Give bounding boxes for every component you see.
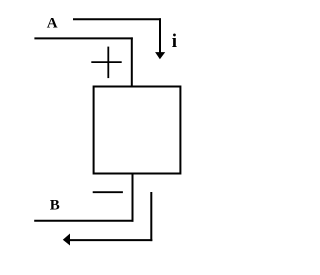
- current arrowhead (downward): [155, 52, 165, 59]
- svg-text:i: i: [172, 31, 177, 52]
- wire: vertical segment from box bottom to B-wire: [132, 173, 134, 222]
- polarity plus sign: [91, 47, 121, 79]
- wire: horizontal segment to terminal B: [34, 220, 133, 222]
- svg-text:A: A: [47, 16, 58, 32]
- wire: horizontal segment from terminal A: [34, 37, 132, 39]
- return current arrowhead (leftward): [63, 234, 70, 246]
- wire: vertical segment from A-wire to box top: [131, 37, 133, 87]
- wire: top horizontal segment to current arrow: [73, 18, 161, 20]
- svg-text:B: B: [50, 197, 60, 213]
- wire: horizontal segment of return current arrow: [70, 239, 153, 241]
- two-terminal element box: [94, 87, 181, 174]
- polarity minus sign: [93, 191, 123, 193]
- wire: vertical segment of return current arrow: [150, 192, 152, 241]
- wire: vertical segment of current arrow: [159, 18, 161, 52]
